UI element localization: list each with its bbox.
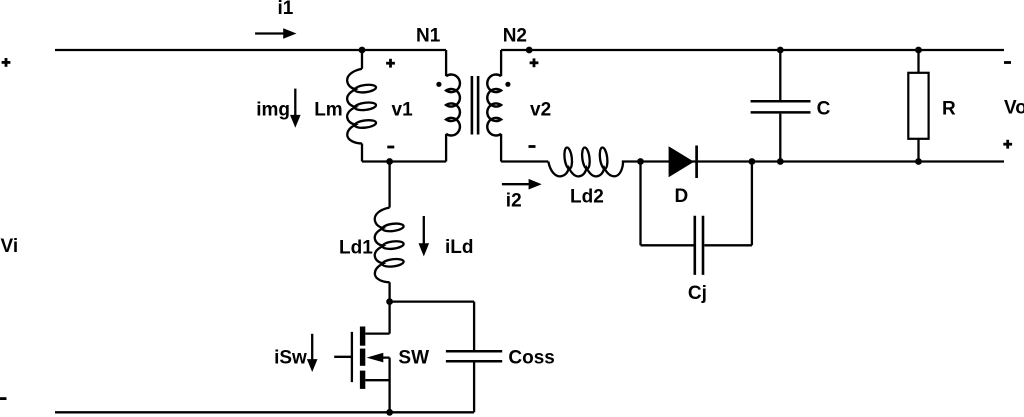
svg-text:Ld2: Ld2 bbox=[570, 186, 604, 207]
svg-text:Lm: Lm bbox=[314, 100, 343, 121]
svg-text:Ld1: Ld1 bbox=[339, 237, 373, 258]
svg-text:Vo: Vo bbox=[1004, 97, 1024, 118]
svg-text:N2: N2 bbox=[503, 26, 527, 47]
svg-text:Vi: Vi bbox=[1, 236, 19, 257]
svg-text:R: R bbox=[942, 98, 956, 119]
svg-text:i1: i1 bbox=[277, 0, 293, 19]
svg-text:iLd: iLd bbox=[445, 237, 474, 258]
svg-text:N1: N1 bbox=[416, 26, 441, 47]
svg-text:SW: SW bbox=[398, 348, 429, 369]
svg-text:Coss: Coss bbox=[508, 348, 554, 369]
svg-text:img: img bbox=[256, 100, 290, 121]
svg-text:iSw: iSw bbox=[274, 347, 307, 368]
svg-text:i2: i2 bbox=[506, 190, 522, 211]
svg-text:D: D bbox=[675, 186, 689, 207]
svg-text:v2: v2 bbox=[530, 100, 551, 121]
svg-text:Cj: Cj bbox=[688, 283, 707, 304]
svg-text:C: C bbox=[817, 98, 831, 119]
svg-text:v1: v1 bbox=[392, 100, 414, 121]
